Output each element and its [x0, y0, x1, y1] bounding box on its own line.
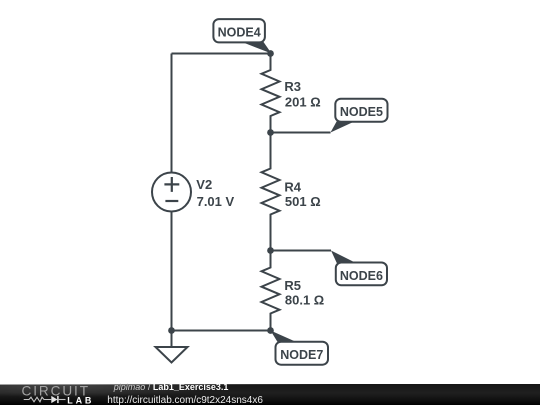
node NODE6 — [331, 251, 387, 286]
node NODE4 — [213, 19, 271, 53]
wire left vertical lower — [171, 212, 173, 331]
label R4 — [284, 179, 320, 209]
svg-text:LAB: LAB — [67, 395, 94, 405]
wire NODE6 stub — [271, 250, 332, 252]
svg-text:V2: V2 — [196, 177, 212, 192]
node NODE5 — [331, 99, 388, 133]
footer text line 1 — [114, 383, 229, 392]
footer bar — [0, 384, 540, 406]
resistor R3 — [262, 54, 280, 133]
label V2 — [196, 177, 234, 209]
voltage source V2 — [152, 173, 191, 212]
label R3 — [284, 79, 320, 110]
node NODE7 — [271, 331, 329, 365]
wire left vertical upper — [171, 54, 173, 173]
svg-text:R5: R5 — [284, 278, 301, 293]
svg-text:501 Ω: 501 Ω — [285, 194, 321, 209]
resistor R4 — [262, 133, 280, 251]
junction node bottom left — [168, 327, 175, 334]
svg-text:201 Ω: 201 Ω — [285, 95, 321, 110]
svg-text:7.01 V: 7.01 V — [197, 194, 235, 209]
svg-text:NODE7: NODE7 — [280, 348, 323, 362]
svg-text:R4: R4 — [284, 179, 301, 194]
junction node bottom right — [267, 327, 274, 334]
wire bottom horizontal — [172, 330, 271, 332]
svg-text:NODE4: NODE4 — [218, 26, 261, 40]
junction node at top of R3 — [267, 50, 274, 57]
svg-text:R3: R3 — [284, 79, 301, 94]
junction node R4/R5 — [267, 247, 274, 254]
junction node R3/R4 — [267, 129, 274, 136]
label R5 — [284, 278, 324, 308]
svg-text:NODE6: NODE6 — [340, 269, 383, 283]
svg-text:NODE5: NODE5 — [340, 105, 383, 119]
ground — [156, 331, 188, 363]
CircuitLab logo — [0, 384, 110, 405]
wire top horizontal — [172, 53, 271, 55]
wire NODE5 stub — [271, 132, 331, 134]
footer text line 2 — [107, 396, 263, 406]
resistor R5 — [262, 251, 280, 331]
svg-text:80.1 Ω: 80.1 Ω — [285, 293, 324, 308]
